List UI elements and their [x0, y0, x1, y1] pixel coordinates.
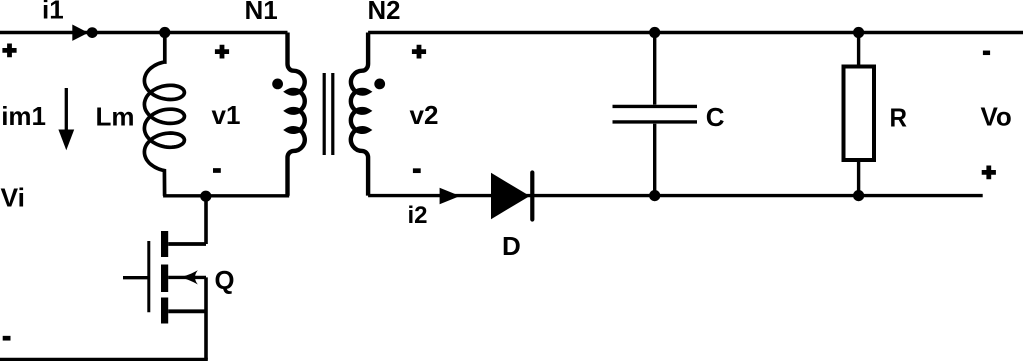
- current arrow i2: [440, 188, 460, 204]
- wire top-right (secondary to output): [368, 31, 1023, 34]
- transistor Q channel bar drain: [161, 231, 168, 257]
- transformer secondary phase dot: [374, 79, 385, 90]
- inductor Lm: [144, 33, 184, 196]
- transformer core: [324, 73, 333, 155]
- wire body arrow line: [168, 276, 206, 279]
- diode D triangle: [491, 173, 530, 219]
- svg-text:R: R: [890, 103, 908, 133]
- diode D cathode bar: [530, 173, 534, 220]
- node junction dot capacitor top: [649, 27, 660, 38]
- transformer primary phase dot: [272, 79, 283, 90]
- transistor Q channel bar source: [161, 298, 168, 324]
- svg-text:v1: v1: [212, 100, 241, 130]
- label + input top: [2, 44, 16, 58]
- node junction dot capacitor bottom: [649, 190, 660, 201]
- svg-text:N1: N1: [245, 0, 278, 25]
- wire secondary bottom to output return: [368, 194, 983, 197]
- label + output bottom: [982, 166, 996, 180]
- wire bottom-left (source return): [0, 358, 208, 361]
- svg-text:Vo: Vo: [981, 102, 1012, 132]
- transformer T1 secondary winding N2: [351, 33, 368, 196]
- label + v1: [215, 45, 229, 59]
- label + v2: [412, 45, 426, 59]
- wire gate lead: [123, 276, 149, 279]
- current arrow i1: [72, 25, 88, 41]
- wire top-left (Vi+ to transformer primary): [0, 31, 288, 34]
- wire drain lead: [168, 242, 206, 246]
- svg-text:N2: N2: [368, 0, 401, 25]
- svg-text:Vi: Vi: [1, 183, 26, 213]
- node junction dot mosfet drain: [200, 191, 211, 202]
- label - output top: [983, 51, 990, 56]
- wire source lead: [168, 309, 206, 313]
- svg-text:v2: v2: [410, 100, 439, 130]
- svg-text:D: D: [502, 231, 521, 261]
- svg-text:Lm: Lm: [96, 102, 135, 132]
- transistor Q channel bar body: [161, 265, 168, 293]
- wire resistor bottom lead: [857, 161, 860, 196]
- resistor R body: [844, 67, 875, 161]
- svg-text:Q: Q: [215, 265, 235, 295]
- wire bottom mesh (Lm/primary bottom): [163, 194, 289, 197]
- svg-text:i2: i2: [408, 202, 428, 229]
- svg-text:i1: i1: [42, 0, 64, 25]
- wire source vertical: [204, 277, 208, 359]
- wire mosfet drain vertical: [204, 196, 208, 244]
- node junction dot top (Lm tap): [159, 27, 170, 38]
- svg-text:im1: im1: [1, 101, 46, 131]
- label - v1: [213, 168, 221, 173]
- label - v2: [413, 168, 421, 173]
- wire resistor top lead: [857, 33, 860, 67]
- wire capacitor bottom lead: [653, 124, 656, 196]
- capacitor C plates: [613, 106, 698, 122]
- current arrow im1: [65, 88, 68, 132]
- label - input bottom: [3, 336, 11, 341]
- transistor Q gate bar: [147, 241, 150, 312]
- svg-text:C: C: [706, 102, 725, 132]
- node junction dot resistor bottom: [853, 190, 864, 201]
- node junction dot resistor top: [853, 27, 864, 38]
- wire capacitor top lead: [653, 33, 656, 105]
- transistor Q body arrow: [179, 270, 198, 284]
- transformer T1 primary winding N1: [287, 33, 304, 196]
